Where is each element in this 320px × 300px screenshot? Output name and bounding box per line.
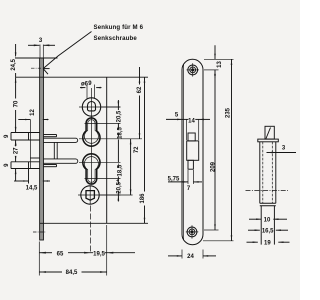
svg-text:7: 7	[187, 186, 191, 192]
svg-text:14: 14	[188, 119, 195, 125]
svg-text:14,5: 14,5	[26, 186, 38, 192]
svg-text:13: 13	[217, 61, 223, 68]
svg-text:18,5: 18,5	[117, 127, 123, 139]
svg-text:62: 62	[137, 86, 143, 93]
svg-text:65: 65	[57, 251, 64, 257]
svg-text:16,5: 16,5	[262, 229, 274, 235]
svg-text:Senkschraube: Senkschraube	[94, 35, 138, 42]
svg-text:70: 70	[14, 100, 20, 107]
svg-text:10: 10	[264, 218, 271, 224]
svg-text:12: 12	[30, 109, 36, 116]
svg-text:5: 5	[175, 113, 179, 119]
svg-text:3: 3	[39, 38, 43, 44]
svg-text:9: 9	[4, 163, 10, 167]
svg-text:3: 3	[282, 145, 286, 151]
svg-text:186: 186	[140, 193, 146, 204]
svg-text:72: 72	[134, 146, 140, 153]
svg-text:19,5: 19,5	[93, 251, 105, 257]
svg-text:24: 24	[187, 254, 194, 260]
svg-text:20,5⁺: 20,5⁺	[115, 179, 122, 194]
svg-text:84,5: 84,5	[66, 270, 78, 276]
svg-text:9: 9	[88, 81, 92, 87]
svg-text:9: 9	[4, 134, 10, 138]
svg-text:24,5: 24,5	[11, 58, 17, 70]
svg-text:5,75: 5,75	[168, 177, 180, 183]
svg-text:209: 209	[211, 161, 217, 172]
svg-text:18,5: 18,5	[117, 164, 123, 176]
svg-text:Senkung für M 6: Senkung für M 6	[94, 24, 144, 31]
svg-text:20,5: 20,5	[117, 110, 123, 122]
svg-text:235: 235	[226, 107, 232, 118]
svg-text:27: 27	[13, 147, 19, 154]
svg-text:19: 19	[264, 241, 271, 247]
